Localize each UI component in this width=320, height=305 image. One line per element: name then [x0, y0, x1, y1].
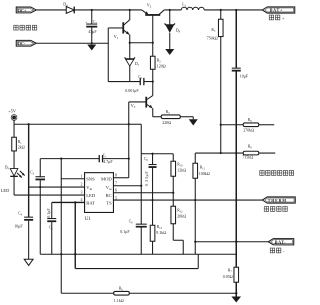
svg-text:1.1kΩ: 1.1kΩ [114, 298, 124, 303]
svg-text:LED: LED [86, 193, 96, 198]
wire zener anode to 0.001uF line [108, 81, 140, 83]
transistor V3 [131, 96, 153, 117]
wire DC- to node x108 [36, 42, 108, 44]
resistor R13 9.1kohm [150, 225, 166, 255]
svg-text:8: 8 [115, 173, 117, 178]
svg-text:DC-: DC- [18, 41, 26, 46]
wire 4.7uF rail [40, 158, 99, 160]
ground (solid) after 220ohm [189, 117, 198, 126]
connector THERM [262, 197, 295, 203]
ground (solid) under R7 [231, 297, 241, 303]
resistor R1 2kohm [12, 137, 25, 168]
capacitor C1 4.7uF [99, 153, 129, 164]
resistor R7 0.05ohm (current sense) [223, 242, 239, 297]
text DC input (Chinese 直流输入) [14, 25, 37, 30]
svg-text:4.7μF: 4.7μF [103, 159, 113, 164]
wire IC pin7 Vss [113, 185, 141, 187]
svg-text:6: 6 [115, 188, 117, 193]
diode D8 (freewheel) [165, 10, 181, 49]
resistor R10 12kohm [171, 154, 186, 207]
svg-text:BAT-: BAT- [275, 240, 287, 245]
svg-text:9.1kΩ: 9.1kΩ [156, 230, 166, 235]
supply +5V terminal [8, 109, 17, 138]
wire IC pin1 SNS [61, 178, 84, 180]
wire V2 to inductor [164, 9, 181, 11]
svg-text:TS: TS [106, 201, 112, 206]
wire SNS riser x59.8 [60, 159, 62, 255]
svg-text:BAT+: BAT+ [270, 8, 283, 13]
LED D9 [1, 165, 25, 195]
svg-text:715kΩ: 715kΩ [242, 155, 253, 160]
wire MOD branch to x141 [129, 123, 142, 125]
wire branch y153.5 to 12k [141, 153, 173, 155]
resistor R11 100kohm [193, 153, 210, 254]
wire +5V branch to vertical rail x28.4 [14, 123, 129, 125]
svg-text:DC+: DC+ [18, 8, 27, 13]
svg-text:+: + [85, 20, 87, 24]
svg-text:47μF: 47μF [88, 29, 97, 34]
inductor L1 [181, 1, 204, 10]
svg-text:MOD: MOD [101, 177, 112, 182]
wire rail B y267 [75, 268, 198, 270]
svg-text:750kΩ: 750kΩ [207, 35, 218, 40]
svg-text:220Ω: 220Ω [162, 120, 171, 125]
svg-text:0.1μF: 0.1μF [46, 208, 51, 218]
svg-text:U1: U1 [85, 217, 92, 222]
wire BAT junction riser x75 [74, 202, 76, 268]
wire ground rail C y253.5 [40, 253, 236, 255]
svg-text:THERM: THERM [268, 198, 287, 203]
resistor R6 1.1kohm (bottom rail) [61, 287, 236, 304]
resistor R3 220ohm (V3 emitter) [153, 110, 194, 125]
zener diode D7 [125, 43, 140, 82]
capacitor C3 line with 4.7uF rail [30, 159, 45, 255]
wire vertical x236 continues [235, 72, 237, 242]
transistor V2 (pass, PNP) [142, 2, 165, 42]
wire IC pin4 BAT [52, 201, 85, 203]
text battery+ (Chinese 电池+) [269, 15, 285, 20]
svg-text:LED: LED [1, 188, 10, 193]
svg-text:0.05Ω: 0.05Ω [223, 274, 233, 279]
wire V1 emitter to V2 base node [130, 42, 153, 44]
node: V1 collector on top rail [129, 9, 131, 11]
svg-text:1: 1 [81, 173, 83, 178]
svg-text:20kΩ: 20kΩ [177, 213, 186, 218]
svg-text:RC: RC [106, 193, 112, 198]
svg-text:10μF: 10μF [240, 73, 249, 78]
capacitor C2 0.001uF [125, 75, 153, 93]
text battery type select (Chinese 电池种类选择) [260, 171, 294, 176]
wire BAT- line [195, 241, 268, 243]
svg-text:2kΩ: 2kΩ [18, 145, 25, 150]
svg-text:BAT: BAT [86, 201, 95, 206]
resistor R8 270kohm (battery select) [220, 118, 275, 133]
wire IC pin8 MOD [113, 177, 128, 179]
capacitor C4 10uF [14, 211, 33, 259]
diode D6 [63, 1, 74, 13]
wire vertical x141 [140, 124, 142, 224]
connector BAT- [268, 239, 294, 245]
resistor R5 750kohm [207, 10, 223, 153]
wire rail C drop at x61.5 [60, 254, 62, 293]
wire inductor to BAT+ [204, 9, 262, 11]
svg-text:270kΩ: 270kΩ [243, 128, 254, 133]
text battery- (Chinese 电池-) [270, 248, 285, 253]
resistor R2 120ohm (V2 base feed) [150, 43, 165, 96]
wire V1 base [108, 27, 123, 29]
svg-text:SNS: SNS [86, 177, 95, 182]
svg-text:120Ω: 120Ω [157, 63, 166, 68]
wire top rail: diode to V2 [74, 9, 142, 11]
wire +5V rail to IC pin2 [29, 186, 85, 188]
svg-text:0.001μF: 0.001μF [125, 88, 139, 93]
ground (solid) under D8 [165, 49, 174, 55]
text temperature sense (Chinese 温度检测) [264, 207, 287, 212]
ground (open triangle) under C4 [24, 259, 33, 265]
svg-text:12kΩ: 12kΩ [177, 167, 186, 172]
connector DC+ [16, 7, 36, 13]
capacitor C7 47uF [85, 10, 97, 43]
node: C7 tap on top rail [91, 9, 93, 11]
resistor R9 715kohm (battery select) [195, 144, 275, 159]
node: 0.001uF joins R2 bottom line [152, 80, 154, 82]
wire IC pin6 RC [113, 192, 173, 194]
wire IC pin5 TS to THERM [113, 199, 262, 201]
wire DC+ to diode D6 [36, 9, 66, 11]
connector BAT+ [262, 7, 295, 13]
capacitor C8 0.1uF (on x141) [120, 220, 147, 255]
svg-text:2: 2 [81, 182, 83, 187]
wire V3 base [129, 101, 147, 103]
svg-text:0.33μF: 0.33μF [144, 171, 149, 187]
resistor R12 20kohm [171, 206, 186, 254]
wire vertical +5V rail x28.4 [28, 124, 30, 217]
capacitor C5 0.1uF (on BAT pin) [46, 202, 57, 254]
wire vertical x108 (V1 base rail) [107, 28, 109, 82]
svg-text:+5V: +5V [8, 109, 17, 114]
node: DC- / C7 / ground junction [91, 42, 93, 44]
svg-text:3: 3 [81, 190, 83, 195]
capacitor C6 0.33uF [144, 154, 157, 226]
wire MOD riser x128.5 up to V3 base [128, 102, 130, 178]
wire LED to IC pin3 [14, 194, 85, 196]
svg-text:4: 4 [81, 197, 83, 202]
ground (solid) under C7 [87, 45, 96, 51]
op-amp U1 (charge controller IC) [85, 173, 114, 222]
wire vertical BAT+ rail x236 [235, 10, 237, 68]
svg-text:100kΩ: 100kΩ [199, 171, 210, 176]
svg-text:7: 7 [115, 181, 117, 186]
svg-text:0.1μF: 0.1μF [120, 229, 130, 234]
connector DC- [16, 40, 36, 46]
capacitor C 10uF (right) [232, 68, 249, 78]
svg-text:10μF: 10μF [14, 223, 23, 228]
transistor V1 [114, 10, 130, 43]
